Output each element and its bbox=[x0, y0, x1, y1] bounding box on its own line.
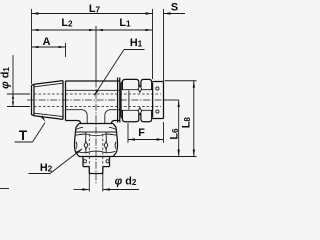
svg-text:F: F bbox=[138, 127, 145, 139]
svg-text:S: S bbox=[171, 2, 178, 14]
dimension L6 bbox=[164, 100, 181, 157]
dimension phi-d1 label bbox=[0, 67, 12, 89]
extension line y=156.5 bbox=[113, 156, 197, 158]
extension line x=152.5 bbox=[152, 9, 154, 79]
border mark bottom-left bbox=[0, 188, 9, 190]
label T and leader bbox=[15, 116, 46, 144]
centerline vertical branch axis bbox=[95, 81, 97, 185]
dimension F bbox=[128, 122, 164, 143]
centerline horizontal axis bbox=[27, 99, 164, 101]
dimension A bbox=[32, 36, 66, 48]
dimension S (top right) bbox=[164, 2, 186, 15]
svg-text:L7: L7 bbox=[89, 3, 101, 15]
label H2 and leader bbox=[29, 149, 83, 175]
svg-text:A: A bbox=[43, 36, 51, 48]
branch bore hidden lines (d2) bbox=[89, 134, 103, 166]
svg-text:L2: L2 bbox=[61, 17, 73, 29]
svg-text:L1: L1 bbox=[119, 17, 131, 29]
svg-text:φ d1: φ d1 bbox=[0, 67, 12, 89]
dimension L8 bbox=[165, 81, 197, 157]
dimension L2 bbox=[32, 17, 97, 31]
svg-text:L8: L8 bbox=[180, 117, 192, 129]
body end face bbox=[118, 78, 120, 123]
dimension L7 (overall length, top) bbox=[32, 3, 153, 15]
extension line x=31.5 bbox=[31, 9, 33, 84]
dimension L1 bbox=[96, 17, 153, 31]
label H1 and leader bbox=[94, 37, 145, 96]
extension line x=163.5 bbox=[163, 9, 165, 81]
bore hidden lines (d1) bbox=[34, 94, 161, 107]
svg-text:T: T bbox=[19, 128, 28, 143]
extension line x=96 (branch axis) bbox=[95, 26, 97, 81]
body hex outline bbox=[66, 81, 120, 121]
dimension phi-d1 arrows bbox=[7, 55, 30, 107]
thread/body step bbox=[65, 81, 67, 121]
svg-text:φ d2: φ d2 bbox=[115, 176, 137, 188]
dimension phi-d2 bbox=[74, 167, 140, 192]
branch right fillet bbox=[105, 110, 115, 124]
extension line x=65.5 (A right) bbox=[65, 43, 67, 57]
tube stub bottom bbox=[89, 167, 103, 174]
svg-text:H1: H1 bbox=[130, 37, 143, 49]
union nut bottom H2 (branch connection) bbox=[75, 124, 118, 167]
union nut right (side connection) bbox=[121, 79, 164, 121]
svg-text:H2: H2 bbox=[40, 162, 53, 174]
svg-text:L6: L6 bbox=[169, 128, 181, 140]
branch left fillet bbox=[78, 110, 88, 124]
male thread T outline bbox=[32, 81, 64, 120]
